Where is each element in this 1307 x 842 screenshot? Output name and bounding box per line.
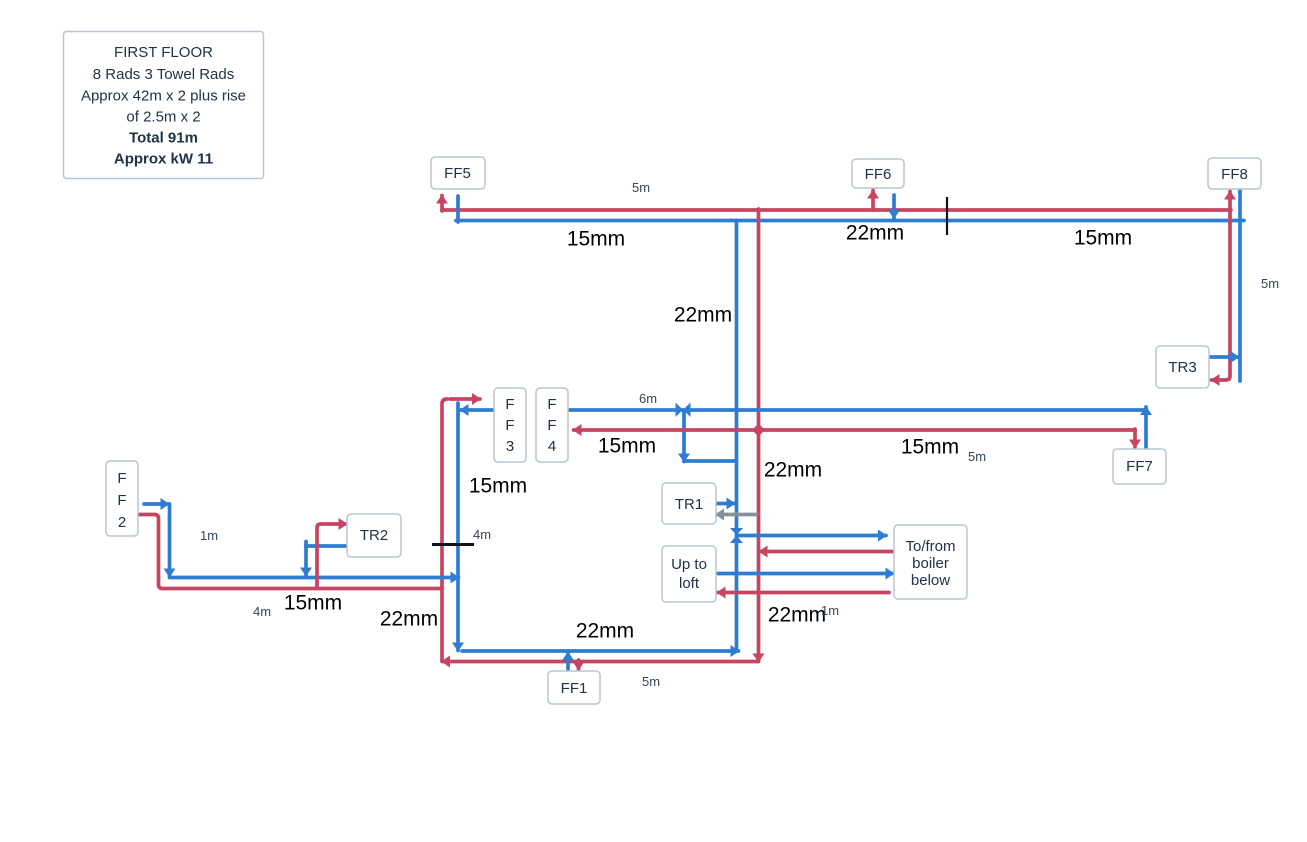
svg-text:1m: 1m bbox=[200, 528, 218, 543]
svg-text:5m: 5m bbox=[632, 180, 650, 195]
svg-text:4: 4 bbox=[548, 438, 556, 455]
wire red arrow from boiler into Up-to-loft bbox=[718, 591, 890, 595]
wire red top run (flow 22mm/15mm) bbox=[442, 208, 1231, 212]
junction diamond on red riser crossing bbox=[752, 424, 765, 437]
wire blue FF2 out, arrow right bbox=[144, 502, 169, 506]
svg-text:Approx kW 11: Approx kW 11 bbox=[114, 151, 213, 168]
wire blue bottom run, arrow right into center vertical bbox=[462, 649, 739, 653]
wire blue top run (return) bbox=[456, 219, 1244, 223]
radiator FF5 bbox=[431, 157, 485, 189]
svg-text:22mm: 22mm bbox=[846, 222, 904, 245]
wire red TR2 branch, arrow right into TR2 bbox=[317, 524, 347, 589]
towel rad TR1 bbox=[662, 483, 716, 524]
svg-text:15mm: 15mm bbox=[567, 228, 625, 251]
svg-text:22mm: 22mm bbox=[576, 620, 634, 643]
wire red left vertical from FF3 elbow down to bottom run bbox=[442, 399, 447, 661]
info box FIRST FLOOR bbox=[64, 32, 264, 179]
svg-text:22mm: 22mm bbox=[380, 608, 438, 631]
wire red bottom run, arrow left into left vertical bbox=[442, 660, 759, 664]
wire red center vertical (22mm riser), arrow down at bottom bbox=[757, 209, 761, 662]
svg-text:F: F bbox=[117, 492, 126, 509]
svg-text:TR2: TR2 bbox=[360, 527, 388, 544]
wire blue arrow TR3 to vertical bbox=[1209, 355, 1239, 359]
svg-text:To/from: To/from bbox=[905, 538, 955, 555]
svg-text:2: 2 bbox=[118, 514, 126, 531]
svg-text:6m: 6m bbox=[639, 391, 657, 406]
node To/from boiler below bbox=[894, 525, 967, 599]
towel rad TR2 bbox=[347, 514, 401, 557]
svg-text:15mm: 15mm bbox=[901, 436, 959, 459]
svg-text:F: F bbox=[547, 417, 556, 434]
valve on blue center vertical (bowtie) bbox=[730, 528, 743, 543]
svg-text:5m: 5m bbox=[642, 674, 660, 689]
wire blue center vertical (22mm riser) bbox=[735, 221, 739, 652]
svg-text:22mm: 22mm bbox=[764, 459, 822, 482]
svg-text:5m: 5m bbox=[968, 449, 986, 464]
wire blue FF2 vertical down, arrow down bbox=[168, 504, 172, 577]
svg-text:F: F bbox=[117, 470, 126, 487]
svg-text:TR3: TR3 bbox=[1168, 359, 1196, 376]
svg-text:F: F bbox=[505, 417, 514, 434]
tick mark on top run bbox=[946, 197, 948, 235]
wire blue run FF4 to FF7 riser bbox=[569, 408, 1146, 412]
svg-text:4m: 4m bbox=[473, 527, 491, 542]
svg-text:Total 91m: Total 91m bbox=[129, 130, 198, 147]
svg-text:F: F bbox=[547, 396, 556, 413]
svg-text:5m: 5m bbox=[1261, 276, 1279, 291]
svg-text:FF8: FF8 bbox=[1221, 166, 1248, 183]
radiator FF3 bbox=[494, 388, 526, 462]
svg-text:FF1: FF1 bbox=[561, 680, 588, 697]
wire red FF2 elbow run to left vertical bbox=[138, 515, 442, 589]
radiator FF7 bbox=[1113, 449, 1166, 484]
wire blue connector to center vertical bbox=[684, 459, 737, 463]
wire blue TR2 branch bbox=[306, 546, 348, 576]
wire gray arrow from red riser into TR1 bbox=[716, 513, 757, 517]
svg-text:22mm: 22mm bbox=[768, 604, 826, 627]
wire red drop into FF7, arrow down bbox=[1133, 429, 1137, 448]
wire blue vertical from FF8 down past TR3 bbox=[1238, 190, 1242, 381]
towel rad TR3 bbox=[1156, 346, 1209, 388]
wire blue riser up from FF7, arrow up bbox=[1144, 407, 1148, 449]
svg-text:3: 3 bbox=[506, 438, 514, 455]
svg-text:15mm: 15mm bbox=[284, 592, 342, 615]
wire red FF1 stub, arrow down bbox=[577, 660, 581, 670]
wire blue arrow down from FF6 bbox=[892, 195, 896, 218]
svg-text:below: below bbox=[911, 572, 950, 589]
tick mark on left risers bbox=[432, 543, 474, 546]
wire blue FF1 stub, arrow up bbox=[566, 653, 570, 672]
svg-text:15mm: 15mm bbox=[469, 475, 527, 498]
wire red arrow up into FF6 bbox=[871, 191, 875, 211]
wire red arrow from boiler to red riser bbox=[760, 550, 893, 554]
wire blue stub at FF5 bbox=[456, 196, 460, 222]
svg-text:Approx 42m x 2 plus rise: Approx 42m x 2 plus rise bbox=[81, 88, 246, 105]
svg-text:15mm: 15mm bbox=[1074, 227, 1132, 250]
radiator FF2 bbox=[106, 461, 138, 536]
svg-text:FF6: FF6 bbox=[865, 166, 892, 183]
valve on blue run (bowtie) bbox=[676, 403, 691, 418]
wire blue arrow left from FF3 into left vertical bbox=[461, 408, 496, 412]
wire blue arrow loft line to boiler bbox=[718, 572, 894, 576]
radiator FF8 bbox=[1208, 158, 1261, 189]
wire blue left vertical down, arrow at bottom bbox=[456, 403, 460, 651]
wire blue arrow to boiler bbox=[738, 534, 886, 538]
wire red return run to FF4, arrow left bbox=[574, 428, 1136, 432]
wire blue drop from valve, arrow down bbox=[682, 411, 686, 462]
svg-text:FF5: FF5 bbox=[444, 165, 471, 182]
svg-text:15mm: 15mm bbox=[598, 435, 656, 458]
svg-text:loft: loft bbox=[679, 575, 700, 592]
wire red arrow up into FF5 bbox=[440, 196, 444, 212]
svg-text:FIRST FLOOR: FIRST FLOOR bbox=[114, 44, 213, 61]
svg-text:8 Rads 3 Towel Rads: 8 Rads 3 Towel Rads bbox=[93, 66, 234, 83]
wire red arrow up into FF8 bbox=[1228, 192, 1232, 211]
svg-text:FF7: FF7 bbox=[1126, 458, 1153, 475]
wire red elbow to FF3 arrow right bbox=[450, 397, 480, 401]
svg-text:1m: 1m bbox=[821, 603, 839, 618]
svg-text:4m: 4m bbox=[253, 604, 271, 619]
svg-text:boiler: boiler bbox=[912, 555, 949, 572]
radiator FF1 bbox=[548, 671, 600, 704]
wire blue left bottom run, arrow right into left vertical bbox=[170, 576, 459, 580]
wire red vertical FF8 to TR3 elbow, arrow left into TR3 bbox=[1212, 208, 1231, 380]
svg-text:22mm: 22mm bbox=[674, 304, 732, 327]
radiator FF6 bbox=[852, 159, 904, 188]
node Up to loft bbox=[662, 546, 716, 602]
wire blue arrow TR1 to center vertical bbox=[716, 502, 735, 506]
svg-text:F: F bbox=[505, 396, 514, 413]
svg-text:Up to: Up to bbox=[671, 556, 707, 573]
svg-text:of 2.5m x 2: of 2.5m x 2 bbox=[126, 109, 200, 126]
svg-text:TR1: TR1 bbox=[675, 496, 703, 513]
radiator FF4 bbox=[536, 388, 568, 462]
